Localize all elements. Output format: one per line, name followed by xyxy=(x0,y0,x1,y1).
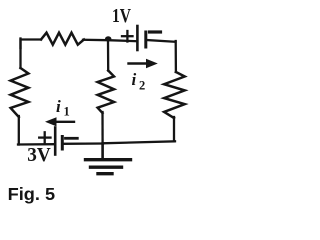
wire left vertical upper xyxy=(19,39,21,69)
wire left vertical lower xyxy=(18,116,20,145)
wire bottom-right horizontal xyxy=(103,141,175,143)
node junction dot xyxy=(105,36,111,41)
battery V1 plus sign xyxy=(122,31,133,42)
svg-text:3V: 3V xyxy=(27,145,51,166)
wire right vertical upper xyxy=(175,41,177,72)
battery V1 short plate xyxy=(144,32,147,47)
wire middle vertical lower xyxy=(101,112,103,144)
ground bar 2 xyxy=(91,165,122,168)
svg-text:1V: 1V xyxy=(112,5,131,27)
resistor R-left xyxy=(11,68,29,117)
ground stem xyxy=(101,144,104,159)
svg-text:Fig. 5: Fig. 5 xyxy=(8,184,56,204)
resistor R-middle xyxy=(98,71,114,114)
wire right vertical lower xyxy=(173,117,175,141)
battery V1 long plate xyxy=(136,26,139,50)
battery V1 minus sign xyxy=(150,30,161,33)
battery V2 plus sign xyxy=(39,132,50,143)
svg-text:i: i xyxy=(132,70,137,89)
battery V2 short plate xyxy=(61,137,64,150)
svg-text:i: i xyxy=(56,97,61,116)
svg-text:1: 1 xyxy=(64,105,70,119)
wire bottom-left horizontal xyxy=(18,143,54,146)
wire middle vertical upper xyxy=(107,40,109,71)
current arrow i1 xyxy=(45,117,74,126)
battery V2 minus sign xyxy=(66,137,78,140)
svg-text:2: 2 xyxy=(139,78,145,92)
battery V2 long plate xyxy=(54,128,57,155)
wire bottom middle xyxy=(63,142,103,145)
current arrow i2 xyxy=(129,59,158,68)
ground bar 1 xyxy=(86,158,131,161)
ground bar 3 xyxy=(98,172,112,175)
wire top middle xyxy=(83,40,137,41)
resistor R-top xyxy=(41,33,84,45)
wire top-right xyxy=(147,40,176,42)
wire top-left horizontal xyxy=(21,40,42,49)
resistor R-right xyxy=(164,72,185,118)
